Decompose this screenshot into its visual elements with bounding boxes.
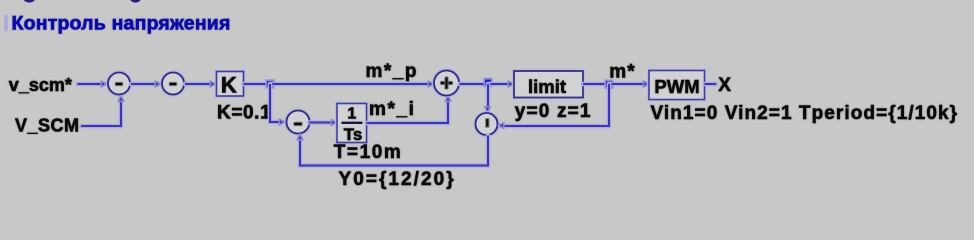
wire 1/Ts up into sum3 bottom xyxy=(367,99,449,123)
svg-text:Y0={12/20}: Y0={12/20} xyxy=(339,169,456,190)
cropped text remnant blob 1 xyxy=(24,0,35,3)
svg-text:K=0.1: K=0.1 xyxy=(217,102,271,123)
wire sum1 to sum2 xyxy=(131,82,158,87)
svg-text:m*: m* xyxy=(609,62,635,83)
wire J1 down to sumI xyxy=(270,84,282,122)
integrator block 1/Ts xyxy=(337,104,367,143)
svg-text:Ts: Ts xyxy=(344,125,363,144)
svg-text:K: K xyxy=(221,73,237,98)
cropped text remnant blob 2 xyxy=(130,0,140,3)
junction J2 xyxy=(484,79,492,87)
wire PWM to X xyxy=(705,82,717,87)
wire J2 down into mult top xyxy=(486,84,491,109)
svg-text:Контроль напряжения: Контроль напряжения xyxy=(12,13,231,35)
wire v_scm* to sum1 xyxy=(78,82,105,87)
svg-text:y=0 z=1: y=0 z=1 xyxy=(515,101,592,122)
wire sum2 to gain K xyxy=(185,82,213,87)
wire J2 to limit xyxy=(488,82,511,87)
svg-text:V_SCM: V_SCM xyxy=(15,116,80,136)
multiplier circle with bar xyxy=(476,113,498,135)
gain block K xyxy=(217,72,244,97)
wire sum3 to junction J2 xyxy=(460,82,489,87)
svg-text:limit: limit xyxy=(528,76,566,97)
svg-text:X: X xyxy=(718,75,731,96)
svg-text:PWM: PWM xyxy=(654,76,699,97)
wire J1 to sum3 (m*_p path) xyxy=(270,82,431,87)
svg-text:Vin1=0 Vin2=1 Tperiod={1/10k}: Vin1=0 Vin2=1 Tperiod={1/10k} xyxy=(651,103,959,124)
svg-text:m*_i: m*_i xyxy=(369,99,416,120)
wire J3 to PWM xyxy=(609,82,646,87)
svg-text:m*_p: m*_p xyxy=(366,61,418,82)
summing junction sumI (-) integrator input xyxy=(287,111,310,134)
wire K to junction J1 xyxy=(244,82,271,87)
wire sumI to integrator 1/Ts xyxy=(309,120,334,125)
wire J3 down and left into mult right xyxy=(501,84,609,126)
wire V_SCM up into sum1 bottom xyxy=(81,99,121,126)
junction J1 xyxy=(266,80,274,88)
svg-text:1: 1 xyxy=(347,106,356,123)
limiter block limit xyxy=(514,71,583,98)
junction J3 xyxy=(605,80,613,88)
cropped mark at left edge xyxy=(4,15,8,32)
svg-text:v_scm*: v_scm* xyxy=(9,75,72,95)
comparator block PWM xyxy=(649,71,705,100)
wire limit to junction J3 xyxy=(583,82,609,87)
summing junction sum2 (-) xyxy=(162,73,184,95)
feedback wire mult bottom to sumI bottom xyxy=(300,136,488,166)
svg-text:T=10m: T=10m xyxy=(334,142,403,163)
summing junction sum3 (+) xyxy=(434,71,459,96)
summing junction sum1 (-) xyxy=(108,73,130,95)
